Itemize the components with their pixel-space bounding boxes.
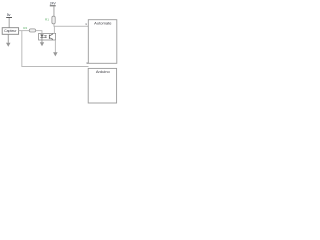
wire R1 to junction xyxy=(53,24,56,26)
power 5V bar symbol xyxy=(6,17,12,18)
wire R2 to optocoupler LED xyxy=(36,29,43,32)
wire LED anode down into box xyxy=(41,31,44,34)
block Automate xyxy=(88,20,117,64)
svg-text:Automate: Automate xyxy=(94,20,112,25)
resistor R1 xyxy=(52,16,55,24)
svg-text:R1: R1 xyxy=(45,18,49,22)
block Arduino xyxy=(88,68,116,103)
wire 24V stem to R1 xyxy=(53,6,56,16)
wire junction down-left branch to Arduino (vertical) xyxy=(20,31,23,67)
ground arrow emitter xyxy=(53,52,58,56)
svg-text:1: 1 xyxy=(85,22,87,26)
resistor R2 xyxy=(29,29,35,32)
wire junction to Automate xyxy=(54,25,89,28)
ground arrow under Capteur xyxy=(6,35,11,47)
ground arrow LED cathode xyxy=(40,40,44,46)
svg-text:Capteur: Capteur xyxy=(4,29,17,33)
optocoupler photon arrows xyxy=(44,35,47,38)
wire emitter down from box xyxy=(54,40,57,52)
svg-text:R2: R2 xyxy=(23,26,27,30)
optocoupler U1 box xyxy=(39,33,56,40)
optocoupler phototransistor xyxy=(49,34,52,40)
wire 5V stem to Capteur xyxy=(8,18,11,28)
wire horizontal to Arduino xyxy=(21,65,88,68)
block Capteur xyxy=(2,28,18,35)
wire junction down to optocoupler collector xyxy=(53,26,56,33)
svg-text:24V: 24V xyxy=(50,2,57,6)
svg-text:5v: 5v xyxy=(7,13,11,17)
optocoupler LED xyxy=(40,34,43,40)
wire Capteur output to R2 xyxy=(19,29,30,32)
svg-text:Arduino: Arduino xyxy=(96,69,111,74)
power 24V bar symbol xyxy=(50,5,56,6)
